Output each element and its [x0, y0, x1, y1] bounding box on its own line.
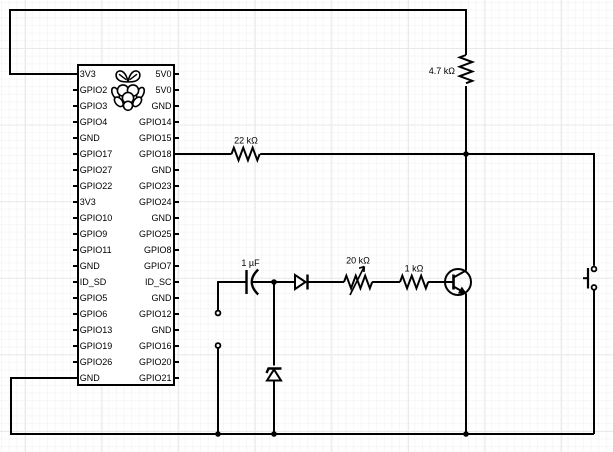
svg-text:GPIO12: GPIO12 — [139, 309, 172, 319]
svg-text:GND: GND — [80, 133, 101, 143]
wire: 3V3 pin loop to top rail into R1 — [10, 10, 466, 74]
wire: R4 to Q1 base — [428, 281, 453, 283]
wire: R1 bottom to junction A — [465, 86, 467, 154]
node A junction dot — [463, 151, 469, 157]
svg-text:GPIO17: GPIO17 — [80, 149, 113, 159]
svg-text:GPIO27: GPIO27 — [80, 165, 113, 175]
svg-text:GPIO22: GPIO22 — [80, 181, 113, 191]
svg-text:GPIO16: GPIO16 — [139, 341, 172, 351]
svg-text:GPIO25: GPIO25 — [139, 229, 172, 239]
wire: D2 to bottom rail junction — [273, 381, 275, 435]
wire: C1 to junction B — [252, 281, 274, 283]
svg-text:ID_SD: ID_SD — [80, 277, 107, 287]
wire: Q1 emitter to bottom rail junction — [465, 294, 467, 435]
svg-text:GPIO14: GPIO14 — [139, 117, 172, 127]
wire: bottom ground rail to GND pin — [11, 378, 594, 434]
svg-text:GPIO26: GPIO26 — [80, 357, 113, 367]
svg-text:GPIO13: GPIO13 — [80, 325, 113, 335]
wire: SW1 bottom terminal to bottom rail — [593, 290, 595, 434]
U1 right pin ticks — [174, 74, 179, 378]
node: emitter/bottom rail junction dot — [463, 431, 469, 437]
U1 left pin labels — [80, 69, 113, 383]
transistor Q1 (NPN) — [445, 269, 471, 295]
svg-text:GND: GND — [152, 325, 173, 335]
svg-text:3V3: 3V3 — [80, 197, 96, 207]
svg-text:GPIO11: GPIO11 — [80, 245, 112, 255]
svg-text:GPIO24: GPIO24 — [139, 197, 172, 207]
svg-text:GPIO9: GPIO9 — [80, 229, 108, 239]
svg-text:ID_SC: ID_SC — [145, 277, 172, 287]
wire: junction B down to zener D2 — [273, 282, 275, 366]
svg-text:GPIO15: GPIO15 — [139, 133, 172, 143]
svg-text:GPIO21: GPIO21 — [139, 373, 172, 383]
svg-text:GND: GND — [152, 293, 173, 303]
wire: J1 upper terminal up and right to C1 — [218, 282, 247, 310]
svg-text:1 kΩ: 1 kΩ — [405, 264, 424, 274]
potentiometer R3 20 kΩ — [344, 267, 372, 296]
svg-text:GPIO2: GPIO2 — [80, 85, 108, 95]
svg-text:GND: GND — [152, 213, 173, 223]
svg-text:GPIO19: GPIO19 — [80, 341, 113, 351]
resistor R1 4.7 kΩ (vertical) — [460, 55, 473, 83]
wire: R3 to R4 — [372, 281, 400, 283]
svg-text:GPIO4: GPIO4 — [80, 117, 108, 127]
wire: J1 lower terminal to bottom rail — [217, 348, 219, 434]
svg-text:GPIO6: GPIO6 — [80, 309, 108, 319]
node: lower terminal/bottom rail junction dot — [215, 431, 221, 437]
svg-text:GND: GND — [152, 165, 173, 175]
resistor R2 22 kΩ — [232, 148, 260, 161]
svg-text:5V0: 5V0 — [155, 69, 171, 79]
wire: junction A to push button SW1 — [466, 154, 594, 266]
U1 right pin labels — [139, 69, 172, 383]
svg-text:GPIO8: GPIO8 — [144, 245, 172, 255]
svg-text:22 kΩ: 22 kΩ — [234, 136, 258, 146]
U1 left pin ticks — [73, 90, 78, 362]
svg-text:GPIO7: GPIO7 — [144, 261, 172, 271]
terminal J1 upper (open circle) — [216, 311, 221, 316]
svg-text:GPIO3: GPIO3 — [80, 101, 108, 111]
wire: R2 to junction A — [260, 153, 466, 155]
resistor R4 1 kΩ — [400, 276, 428, 289]
svg-text:5V0: 5V0 — [155, 85, 171, 95]
svg-text:GPIO10: GPIO10 — [80, 213, 113, 223]
terminal J1 lower (open circle) — [216, 343, 221, 348]
node B junction dot — [271, 279, 277, 285]
IC U1 Raspberry Pi GPIO header block — [78, 65, 174, 385]
push button SW1 — [583, 267, 596, 290]
wire: D1 to R3 — [308, 281, 345, 283]
svg-text:20 kΩ: 20 kΩ — [346, 256, 370, 266]
svg-text:1 µF: 1 µF — [241, 258, 260, 268]
diode D1 — [295, 275, 308, 290]
U1 raspberry logo — [110, 71, 146, 110]
wire: junction A down to transistor collector — [465, 154, 467, 271]
svg-text:GPIO18: GPIO18 — [139, 149, 172, 159]
wire: GPIO18 pin to R2 — [174, 153, 232, 155]
node: zener/bottom rail junction dot — [271, 431, 277, 437]
svg-text:4.7 kΩ: 4.7 kΩ — [429, 66, 456, 76]
svg-text:GND: GND — [152, 101, 173, 111]
wire: junction B to diode D1 — [274, 281, 295, 283]
svg-text:GND: GND — [80, 261, 101, 271]
capacitor C1 1 µF (polarized) — [247, 270, 259, 295]
svg-text:GPIO20: GPIO20 — [139, 357, 172, 367]
svg-text:GND: GND — [80, 373, 101, 383]
zener diode D2 — [267, 369, 282, 381]
svg-text:3V3: 3V3 — [80, 69, 96, 79]
svg-text:GPIO23: GPIO23 — [139, 181, 172, 191]
svg-text:GPIO5: GPIO5 — [80, 293, 108, 303]
